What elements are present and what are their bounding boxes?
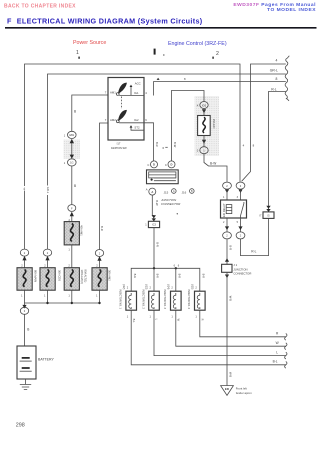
- EFI relay terminal oval bottom-left: [223, 232, 232, 239]
- injector NO.4: [187, 274, 205, 321]
- svg-text:IG1: IG1: [134, 91, 139, 95]
- svg-text:15A EFI: 15A EFI: [212, 119, 216, 129]
- hook top of break: [287, 56, 289, 59]
- junction arrow on line C: [157, 78, 160, 80]
- stipple shade around EB1/IE1 connector pair: [64, 140, 81, 160]
- svg-text:1: 1: [127, 315, 129, 319]
- junction connector J15/J16: [146, 161, 194, 215]
- svg-text:40A AM1: 40A AM1: [79, 225, 83, 236]
- svg-text:IG2: IG2: [134, 118, 139, 122]
- injector NO.2: [141, 274, 159, 321]
- connector EB1 oval: [68, 131, 77, 138]
- svg-text:6: 6: [174, 263, 176, 267]
- svg-text:GR-L: GR-L: [46, 187, 50, 194]
- svg-text:B-R: B-R: [156, 274, 160, 279]
- injector return wire 4: [200, 310, 286, 337]
- in-line connector I7: [263, 212, 274, 219]
- svg-text:F: F: [71, 206, 73, 210]
- svg-text:CONNECTOR: CONNECTOR: [161, 202, 181, 206]
- svg-text:1: 1: [96, 293, 98, 297]
- svg-text:2: 2: [226, 234, 228, 238]
- svg-text:I7: I7: [259, 214, 262, 217]
- fuse 15A EFI: [198, 116, 216, 136]
- wire drops to injectors 2,3: [154, 268, 176, 291]
- in-line connector IC3: [148, 221, 159, 227]
- svg-text:2: 2: [150, 286, 152, 290]
- wire into column2 fuse: [47, 260, 49, 268]
- wires out of relay: [227, 218, 241, 232]
- svg-text:R: R: [201, 319, 205, 321]
- double arrow into connector IC3: [152, 215, 156, 221]
- wire below EFI fuse: [203, 136, 205, 148]
- svg-text:1: 1: [76, 50, 79, 56]
- EFI relay terminal oval top-left: [223, 182, 232, 189]
- svg-text:B-R: B-R: [178, 274, 182, 279]
- svg-text:EWD307F Pages From Manual: EWD307F Pages From Manual: [233, 2, 316, 8]
- column2 wire label GR-L: [45, 186, 50, 196]
- svg-text:1: 1: [64, 133, 66, 137]
- wire from AM1 to column3: [72, 95, 108, 131]
- svg-text:1: 1: [44, 293, 46, 297]
- svg-text:2: 2: [195, 286, 197, 290]
- female arrow above IE1: [70, 155, 74, 159]
- terminal F oval: [68, 205, 76, 212]
- svg-text:ST2: ST2: [134, 126, 140, 130]
- svg-text:W: W: [177, 319, 181, 322]
- injector supply bus: [131, 268, 200, 291]
- svg-text:1: 1: [68, 248, 70, 252]
- svg-text:B-R: B-R: [155, 142, 159, 147]
- junction dot injector2 feed: [153, 267, 155, 269]
- battery terminal oval: [20, 307, 28, 314]
- double arrow into I7 connector: [266, 206, 270, 212]
- svg-text:1: 1: [21, 293, 23, 297]
- svg-text:1: 1: [195, 315, 197, 319]
- wire into AM1 fuse: [71, 216, 73, 222]
- svg-text:IGNITION SW: IGNITION SW: [111, 146, 127, 150]
- svg-text:2: 2: [99, 251, 101, 255]
- wire junction connector up to EFI fuse: [172, 91, 205, 162]
- battery bus: [25, 303, 100, 307]
- arrow above J1: [225, 258, 229, 262]
- svg-text:5: 5: [237, 221, 239, 224]
- svg-text:B: B: [74, 109, 76, 113]
- svg-text:2: 2: [47, 251, 49, 255]
- wire column2 to battery bus: [47, 290, 49, 303]
- svg-text:B: B: [191, 190, 193, 193]
- svg-text:2: 2: [44, 264, 46, 268]
- tick mark col1: [78, 57, 80, 59]
- injector return wire 1: [131, 310, 286, 365]
- svg-text:EFI RELAY: EFI RELAY: [222, 203, 226, 217]
- svg-text:1: 1: [64, 161, 66, 165]
- relay coil: [226, 205, 232, 214]
- junction dot injector3 feed: [175, 267, 177, 269]
- svg-text:B-W: B-W: [210, 161, 216, 165]
- EFI relay terminal oval top-right: [236, 182, 245, 189]
- arrow into EFI fuse: [202, 109, 206, 113]
- svg-text:TO MODEL INDEX: TO MODEL INDEX: [267, 7, 316, 13]
- svg-text:W: W: [276, 341, 279, 345]
- svg-text:100A ALT(2): 100A ALT(2): [80, 270, 84, 284]
- male arrow below EB1: [70, 139, 74, 143]
- switch wedge AM1: [118, 83, 127, 94]
- svg-text:2: 2: [226, 184, 228, 188]
- stipple shade around EFI fuse: [195, 96, 220, 156]
- svg-text:1: 1: [223, 196, 225, 199]
- connector oval column4: [95, 250, 103, 257]
- svg-text:4: 4: [145, 91, 147, 95]
- svg-text:2: 2: [127, 286, 129, 290]
- svg-text:1: 1: [150, 315, 152, 319]
- svg-text:B-L: B-L: [132, 319, 136, 324]
- wire between connector pair: [71, 143, 73, 155]
- junction connector J1: [222, 264, 232, 272]
- svg-text:7: 7: [105, 91, 107, 95]
- wire into MAIN fuse: [24, 260, 26, 268]
- svg-text:ED: ED: [225, 387, 230, 391]
- arrows above bottom ovals: [225, 226, 243, 230]
- injector NO.3: [163, 274, 181, 322]
- wire column3 to battery bus: [71, 290, 73, 303]
- svg-text:L: L: [276, 350, 278, 354]
- svg-text:1: 1: [68, 293, 70, 297]
- svg-text:3: 3: [237, 196, 239, 199]
- svg-text:W-B: W-B: [228, 372, 232, 377]
- svg-text:2: 2: [171, 286, 173, 290]
- break wavy wire4: [285, 333, 287, 340]
- svg-text:30A AM2: 30A AM2: [107, 270, 111, 281]
- wire into EFI fuse: [203, 108, 205, 115]
- wire 4 GR-L off-page U branch: [242, 64, 286, 181]
- battery ground: [25, 379, 27, 384]
- svg-text:2: 2: [96, 264, 98, 268]
- fusible link AM2 30A: [92, 268, 111, 291]
- ignition switch I17 box: [108, 78, 144, 141]
- junction connector body: [147, 170, 179, 184]
- svg-text:8: 8: [253, 143, 255, 147]
- svg-text:INJECTOR NO. 3: INJECTOR NO. 3: [163, 289, 166, 309]
- svg-text:4: 4: [23, 187, 25, 191]
- break wavy wire3: [285, 343, 287, 350]
- svg-text:30A CDS: 30A CDS: [57, 270, 61, 281]
- svg-text:R-L: R-L: [271, 87, 277, 91]
- svg-text:B-W: B-W: [155, 200, 159, 206]
- svg-text:298: 298: [16, 422, 25, 428]
- wire column4 to battery bus: [99, 290, 101, 303]
- svg-text:8: 8: [184, 77, 186, 81]
- wire B-W from fuse to EFI relay: [204, 154, 227, 183]
- svg-text:AM2: AM2: [110, 118, 116, 122]
- fusible link ALT: [64, 268, 87, 291]
- hook bottom of break: [287, 98, 289, 100]
- svg-text:2: 2: [223, 221, 225, 224]
- svg-text:B-R: B-R: [228, 245, 232, 250]
- svg-text:BATTERY: BATTERY: [38, 358, 54, 362]
- junction dot col3: [71, 302, 73, 304]
- svg-text:4: 4: [276, 59, 278, 63]
- svg-text:INJECTOR NO. 2: INJECTOR NO. 2: [141, 289, 144, 309]
- svg-text:B-R: B-R: [155, 242, 159, 247]
- wire 4 GR-L : column1 up, across top, down to EFI relay: [25, 64, 241, 249]
- svg-text:B-R: B-R: [133, 274, 137, 279]
- wire to battery: [24, 314, 26, 346]
- svg-text:IC3: IC3: [152, 224, 157, 227]
- svg-text:FELECTRICAL WIRING DIAGRAM (Sy: FELECTRICAL WIRING DIAGRAM (System Circu…: [7, 16, 203, 25]
- fusible link MAIN: [17, 268, 37, 291]
- svg-text:2: 2: [21, 264, 23, 268]
- svg-text:8: 8: [276, 77, 278, 81]
- svg-text:CONNECTOR: CONNECTOR: [233, 272, 251, 276]
- svg-text:EB1: EB1: [69, 133, 74, 137]
- svg-text:BACK TO CHAPTER INDEX: BACK TO CHAPTER INDEX: [4, 4, 76, 10]
- svg-text:2: 2: [216, 51, 219, 57]
- column divider bar: [154, 49, 156, 55]
- svg-text:W-B: W-B: [228, 296, 232, 301]
- wire into AM2 fuse: [99, 261, 101, 268]
- svg-text:IG6: IG6: [202, 103, 207, 107]
- svg-text:A: A: [173, 190, 175, 193]
- wire B : column2 up and across to break: [48, 74, 286, 249]
- arrow below J1: [225, 275, 229, 279]
- svg-text:B: B: [27, 328, 29, 332]
- svg-text:1G: 1G: [70, 161, 73, 165]
- ground point ED: [221, 386, 234, 396]
- wire IG2 down to junction connector: [144, 123, 154, 161]
- terminal oval below EFI fuse: [200, 147, 208, 154]
- arrow below EFI fuse: [202, 140, 206, 144]
- battery: [17, 346, 54, 379]
- tick mark col2: [212, 57, 214, 59]
- wires into relay: [227, 189, 241, 200]
- wire column1 to battery bus: [24, 290, 26, 303]
- EFI relay terminal oval bottom-right: [236, 232, 245, 239]
- svg-text:6: 6: [145, 118, 147, 122]
- dashed link between wedges: [120, 97, 122, 110]
- svg-text:2: 2: [24, 251, 26, 255]
- stray dot: [177, 213, 178, 214]
- svg-text:1: 1: [171, 315, 173, 319]
- svg-text:INJECTOR NO. 1: INJECTOR NO. 1: [119, 289, 122, 309]
- arrow into MAIN fuse: [22, 256, 26, 261]
- terminal C circle left: [151, 161, 158, 168]
- svg-text:B-R: B-R: [202, 274, 206, 279]
- connector IE1 oval: [68, 159, 77, 166]
- svg-text:INJECTOR NO. 4: INJECTOR NO. 4: [187, 289, 190, 309]
- svg-text:B-R: B-R: [100, 226, 104, 231]
- svg-text:A: A: [151, 190, 153, 194]
- svg-text:I5: I5: [267, 214, 270, 217]
- svg-text:R-L: R-L: [251, 250, 256, 254]
- terminal A circle bottom: [149, 188, 156, 195]
- svg-text:Power Source: Power Source: [73, 40, 106, 46]
- svg-text:GR-L: GR-L: [270, 68, 278, 72]
- arrow into battery terminal: [22, 305, 26, 309]
- wire between column3 fuses: [71, 245, 73, 268]
- injector NO.1: [119, 274, 137, 324]
- junction dot col4: [98, 302, 100, 304]
- fusible link AM1 40A: [64, 222, 83, 245]
- svg-text:80A ALT(1): 80A ALT(1): [83, 270, 87, 283]
- svg-text:2: 2: [240, 234, 242, 238]
- injector return wire 3: [176, 310, 286, 346]
- svg-text:A: A: [146, 187, 148, 191]
- svg-text:B: B: [74, 184, 76, 188]
- svg-text:D: D: [171, 163, 173, 167]
- svg-text:L: L: [155, 319, 159, 321]
- title rule: [5, 27, 317, 29]
- wire from AM2 to column4: [100, 123, 109, 250]
- svg-text:C: C: [165, 163, 167, 167]
- break wavy wire1: [285, 361, 287, 368]
- svg-text:fender apron: fender apron: [236, 391, 252, 395]
- svg-text:B-L: B-L: [273, 360, 278, 364]
- svg-text:3: 3: [24, 309, 26, 313]
- svg-text:AM1: AM1: [110, 91, 116, 95]
- ground wire from J1: [226, 272, 228, 385]
- wire R-L from relay to I7 connector: [241, 218, 269, 255]
- terminal D circle right: [168, 161, 175, 168]
- connector oval column2: [43, 249, 51, 256]
- svg-text:6: 6: [178, 263, 180, 267]
- column1 wire label 4: [23, 186, 27, 191]
- switch wedge AM2: [118, 110, 127, 121]
- svg-text:Engine Control (3RZ-FE): Engine Control (3RZ-FE): [168, 41, 227, 47]
- arrow into fusible link AM1: [70, 212, 74, 217]
- svg-text:7: 7: [105, 118, 107, 122]
- EFI relay box: [221, 200, 247, 218]
- wire from J/C terminal A down: [152, 195, 154, 221]
- svg-text:I17: I17: [117, 142, 121, 146]
- svg-text:1: 1: [145, 224, 147, 227]
- svg-text:R: R: [276, 332, 279, 336]
- wire IC3 to injector bus: [153, 228, 155, 269]
- injector return wire 2: [154, 310, 286, 355]
- tiny marks between risers: [163, 147, 164, 148]
- break wavy wire2: [285, 352, 287, 359]
- wire R-L short segment to break: [269, 92, 286, 212]
- arrow into AM2 fuse: [97, 256, 101, 261]
- wire column3 to fuse block: [71, 166, 73, 205]
- junction dot col2: [46, 302, 48, 304]
- svg-text:C: C: [147, 163, 149, 167]
- svg-text:J15: J15: [164, 191, 169, 195]
- relay switch: [241, 202, 244, 218]
- svg-text:4: 4: [243, 143, 245, 147]
- svg-text:J16: J16: [182, 191, 187, 195]
- svg-text:ACC: ACC: [135, 81, 141, 85]
- svg-text:80A MAIN: 80A MAIN: [33, 270, 37, 282]
- wire B-R from relay to J1: [226, 239, 228, 264]
- svg-text:3: 3: [240, 184, 242, 188]
- terminal oval above EFI fuse: [200, 102, 208, 109]
- svg-text:2: 2: [68, 263, 70, 267]
- page break wavy symbol right top: [285, 58, 288, 99]
- wire 8 R-L : from IG1 to right break: [154, 82, 286, 96]
- connector oval column1: [20, 249, 28, 256]
- arrow into AM1-2 fuse: [45, 256, 49, 261]
- fusible link column2: [40, 268, 61, 291]
- svg-text:D: D: [153, 163, 155, 167]
- arrows below top ovals: [225, 189, 243, 193]
- svg-text:B-W: B-W: [173, 142, 177, 148]
